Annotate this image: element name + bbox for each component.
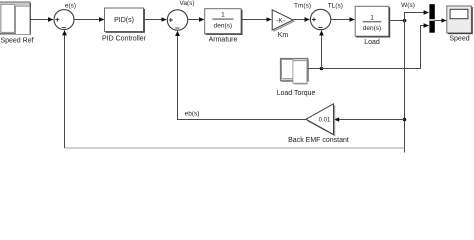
wire Km to sum3, node Tm(s) <box>293 19 309 21</box>
gain Back EMF constant triangle <box>306 104 335 136</box>
block PID Controller <box>105 8 145 33</box>
svg-text:W(s): W(s) <box>401 2 415 9</box>
wire junction up to sum3 <box>321 31 323 69</box>
svg-text:den(s): den(s) <box>363 25 381 32</box>
svg-text:Speed: Speed <box>449 36 469 43</box>
svg-text:e(s): e(s) <box>65 2 76 9</box>
junction W(s) <box>403 19 407 23</box>
junction Load Torque <box>320 67 324 71</box>
svg-text:eb(s): eb(s) <box>185 110 200 117</box>
svg-text:1: 1 <box>370 15 374 22</box>
wire W(s) feedback vertical <box>404 21 406 153</box>
svg-text:Armature: Armature <box>209 37 238 44</box>
block Armature transfer function 1/den(s) <box>205 9 243 35</box>
junction back EMF tap <box>403 118 407 122</box>
wire Load Torque to junction <box>308 68 322 70</box>
svg-text:Km: Km <box>278 32 289 39</box>
svg-text:Load Torque: Load Torque <box>277 90 316 97</box>
svg-text:0.01: 0.01 <box>319 118 331 124</box>
svg-text:-K-: -K- <box>276 18 285 25</box>
svg-text:PID Controller: PID Controller <box>102 35 147 42</box>
mux block <box>429 4 434 33</box>
wire speed feedback to sum1 bottom <box>65 147 405 149</box>
svg-text:Speed Ref: Speed Ref <box>0 38 33 45</box>
wire PID to sum2 <box>145 19 166 21</box>
scope block Speed <box>447 6 473 34</box>
wire Back EMF to sum2 bottom, node eb(s) <box>178 31 306 120</box>
svg-text:Tm(s): Tm(s) <box>294 2 311 9</box>
summing junction 1 <box>54 10 74 30</box>
svg-text:Load: Load <box>364 39 380 46</box>
wire sum2 to Armature <box>188 19 204 21</box>
wire junction to mux input 2 <box>322 26 429 69</box>
wire sum3 to Load <box>331 19 355 21</box>
wire sum1 to PID <box>74 19 104 21</box>
summing junction 2 <box>167 10 187 30</box>
wire W(s) to mux input 1 <box>405 13 429 21</box>
svg-text:Back EMF constant: Back EMF constant <box>288 137 349 144</box>
svg-text:1: 1 <box>221 12 225 19</box>
wire Armature to Km <box>243 19 272 21</box>
svg-text:TL(s): TL(s) <box>328 2 343 9</box>
svg-text:PID(s): PID(s) <box>114 17 134 24</box>
block Load transfer function 1/den(s) <box>355 6 390 37</box>
wire mux to Speed scope <box>435 20 447 22</box>
summing junction 3 <box>310 9 330 29</box>
svg-text:den(s): den(s) <box>214 22 232 29</box>
wire Speed Ref to sum1 <box>30 19 53 21</box>
source block Load Torque <box>280 58 308 84</box>
svg-text:Va(s): Va(s) <box>179 0 194 7</box>
wire Load to junction W(s) <box>390 20 404 22</box>
wire tap to Back EMF input <box>335 119 405 121</box>
gain Km triangle <box>272 10 294 31</box>
source block Speed Ref <box>0 2 31 35</box>
